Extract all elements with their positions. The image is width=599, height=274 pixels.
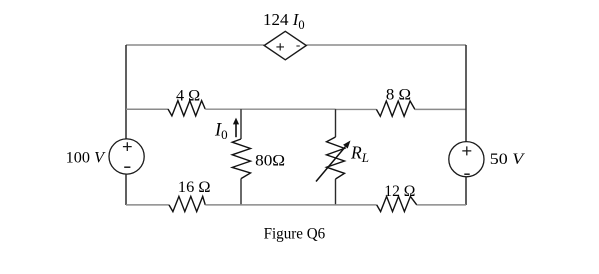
wire 80ohm branch lower (resistor to bottom rail) <box>240 179 242 205</box>
wire mid rail segment B (4ohm to 80ohm branch node) <box>205 108 241 110</box>
label 16 ohm <box>178 178 211 196</box>
label 4 ohm <box>176 86 200 104</box>
resistor RL (vertical, variable) <box>316 137 351 182</box>
wire bottom rail segment D (RL node to 12ohm) <box>336 204 377 206</box>
wire top rail right (from diamond to top-right corner) <box>307 44 467 46</box>
svg-text:8 Ω: 8 Ω <box>386 86 411 104</box>
wire mid rail segment C (80ohm node to RL node) <box>241 108 336 110</box>
svg-text:12 Ω: 12 Ω <box>384 182 415 200</box>
svg-text:RL: RL <box>350 142 369 165</box>
wire bottom rail segment B (16ohm to 80ohm node) <box>205 204 241 206</box>
wire mid rail segment D (RL node to 8ohm resistor) <box>336 108 377 110</box>
svg-text:50 V: 50 V <box>490 150 526 168</box>
dependent source 124 I0 (diamond) <box>264 31 306 60</box>
svg-text:80Ω: 80Ω <box>255 152 285 170</box>
voltage source V2 50 V <box>449 142 484 177</box>
wire left rail upper (top-left corner down to 100V source) <box>125 45 127 139</box>
label RL <box>350 142 369 165</box>
label 100 V <box>66 149 106 167</box>
wire bottom rail segment C (80ohm node to RL node) <box>241 204 336 206</box>
resistor 16 ohm <box>169 196 205 211</box>
wire bottom rail segment A (bottom-left corner to 16ohm) <box>126 204 169 206</box>
label 50 V <box>490 150 526 168</box>
wire top rail left (from top-left corner to diamond) <box>126 44 264 46</box>
label 8 ohm <box>386 86 411 104</box>
wire RL branch lower (RL to bottom rail) <box>335 179 337 205</box>
resistor 4 ohm <box>168 101 205 116</box>
caption Figure Q6 <box>264 224 326 242</box>
label 124 I0 <box>263 10 305 32</box>
resistor 8 ohm <box>376 101 415 116</box>
svg-text:4 Ω: 4 Ω <box>176 86 200 104</box>
wire right rail upper (top-right corner down to 50V source) <box>465 45 467 142</box>
voltage source V1 100 V <box>109 139 144 174</box>
svg-text:124 I0: 124 I0 <box>263 10 305 32</box>
svg-text:16 Ω: 16 Ω <box>178 178 211 196</box>
resistor 12 ohm <box>377 196 417 211</box>
label 80 ohm <box>255 152 285 170</box>
wire mid rail segment A (left rail to 4ohm resistor) <box>126 108 168 110</box>
wire mid rail segment E (8ohm to right rail) <box>415 108 466 110</box>
wire RL branch upper (mid rail down to RL) <box>335 109 337 137</box>
current arrow I0 <box>233 118 239 138</box>
wire bottom rail segment E (12ohm to bottom-right corner) <box>417 204 466 206</box>
svg-text:100 V: 100 V <box>66 149 106 167</box>
wire right rail lower (50V source to bottom-right corner) <box>465 177 467 205</box>
resistor 80 ohm (vertical) <box>232 139 250 179</box>
label 12 ohm <box>384 182 415 200</box>
wire left rail lower (100V source to bottom-left corner) <box>125 174 127 205</box>
svg-text:I0: I0 <box>214 120 228 142</box>
wire 80ohm branch upper (mid rail down to resistor) <box>240 109 242 139</box>
label I0 <box>214 120 228 142</box>
svg-text:Figure Q6: Figure Q6 <box>264 224 326 242</box>
